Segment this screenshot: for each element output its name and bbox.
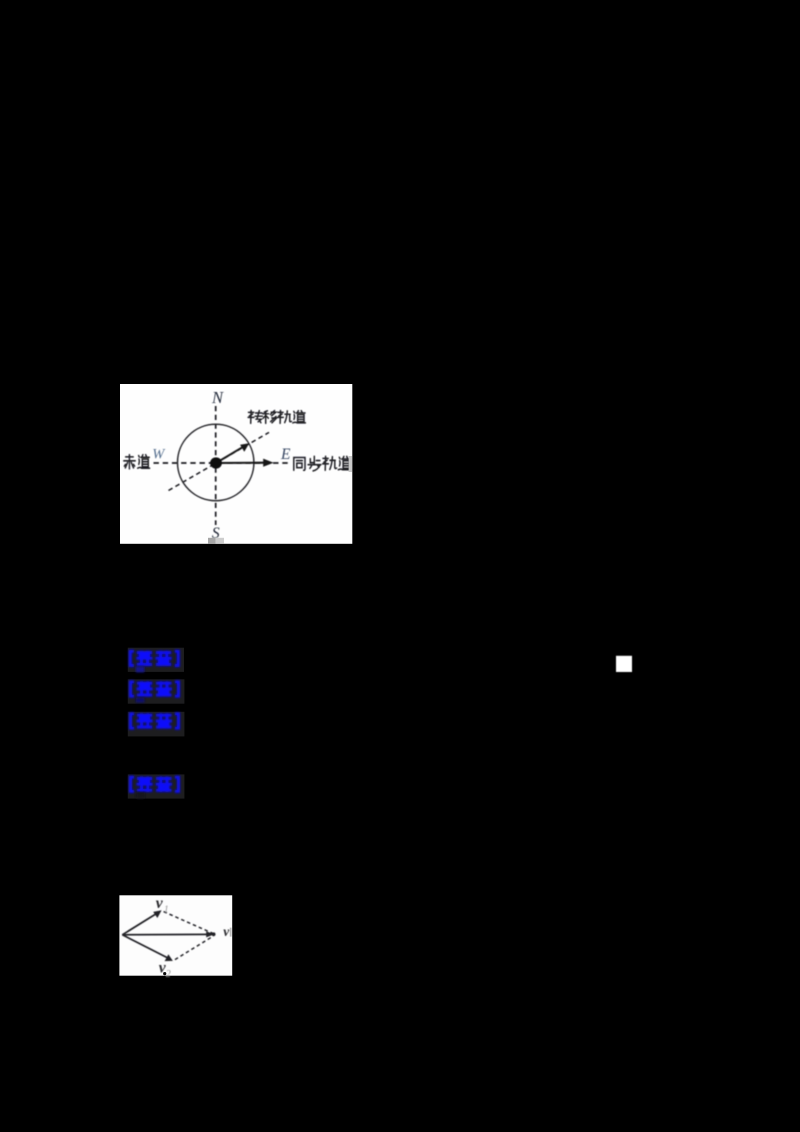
earth circle <box>178 424 254 500</box>
N-S axis dashed line <box>215 406 217 525</box>
marker 4 highlight box <box>128 774 185 798</box>
east velocity arrow <box>216 462 266 464</box>
transfer orbit dashed line <box>169 432 270 490</box>
transfer-orbit velocity arrow <box>216 447 243 463</box>
figure 1 white background <box>120 384 352 544</box>
label 赤道 (equator) <box>124 455 150 469</box>
parallelogram dashed edge v2-v <box>175 936 213 960</box>
component velocity arrow v2 <box>122 935 167 958</box>
equator dashed line <box>154 462 289 464</box>
marker 3 highlight box <box>128 712 185 737</box>
svg-text:v: v <box>156 895 164 912</box>
parallelogram dashed edge v1-v <box>164 912 214 934</box>
label 转移轨道 (transfer orbit) <box>248 411 305 424</box>
gray block at right edge of figure 1 <box>349 456 352 472</box>
label 同步轨道 (synchronous orbit) <box>294 456 351 471</box>
gray handle under S <box>208 538 216 544</box>
marker 2 text 【专题】 <box>131 681 179 697</box>
marker 4 text 【解答】 <box>131 777 179 793</box>
svg-text:1: 1 <box>164 905 169 916</box>
component velocity arrow v1 <box>122 914 156 935</box>
dot below v2 <box>163 972 166 975</box>
svg-text:2: 2 <box>166 969 171 980</box>
inline formula placeholder white square <box>616 656 632 672</box>
svg-text:E: E <box>280 446 291 463</box>
svg-text:W: W <box>152 447 166 463</box>
marker 4 descender smudge <box>136 792 145 798</box>
svg-text:N: N <box>211 388 224 407</box>
marker 2 descender smudge <box>136 698 145 703</box>
svg-text:v: v <box>223 924 230 939</box>
marker 1 text 【考点】 <box>130 651 178 667</box>
figure 2 white background <box>119 895 232 975</box>
earth center dot <box>210 457 222 468</box>
resultant velocity arrow v <box>122 933 208 935</box>
marker 1 descender smudge <box>136 666 145 672</box>
marker 2 highlight box <box>128 679 185 703</box>
marker 3 text 【分析】 <box>131 713 179 729</box>
marker 1 highlight box <box>128 648 184 672</box>
